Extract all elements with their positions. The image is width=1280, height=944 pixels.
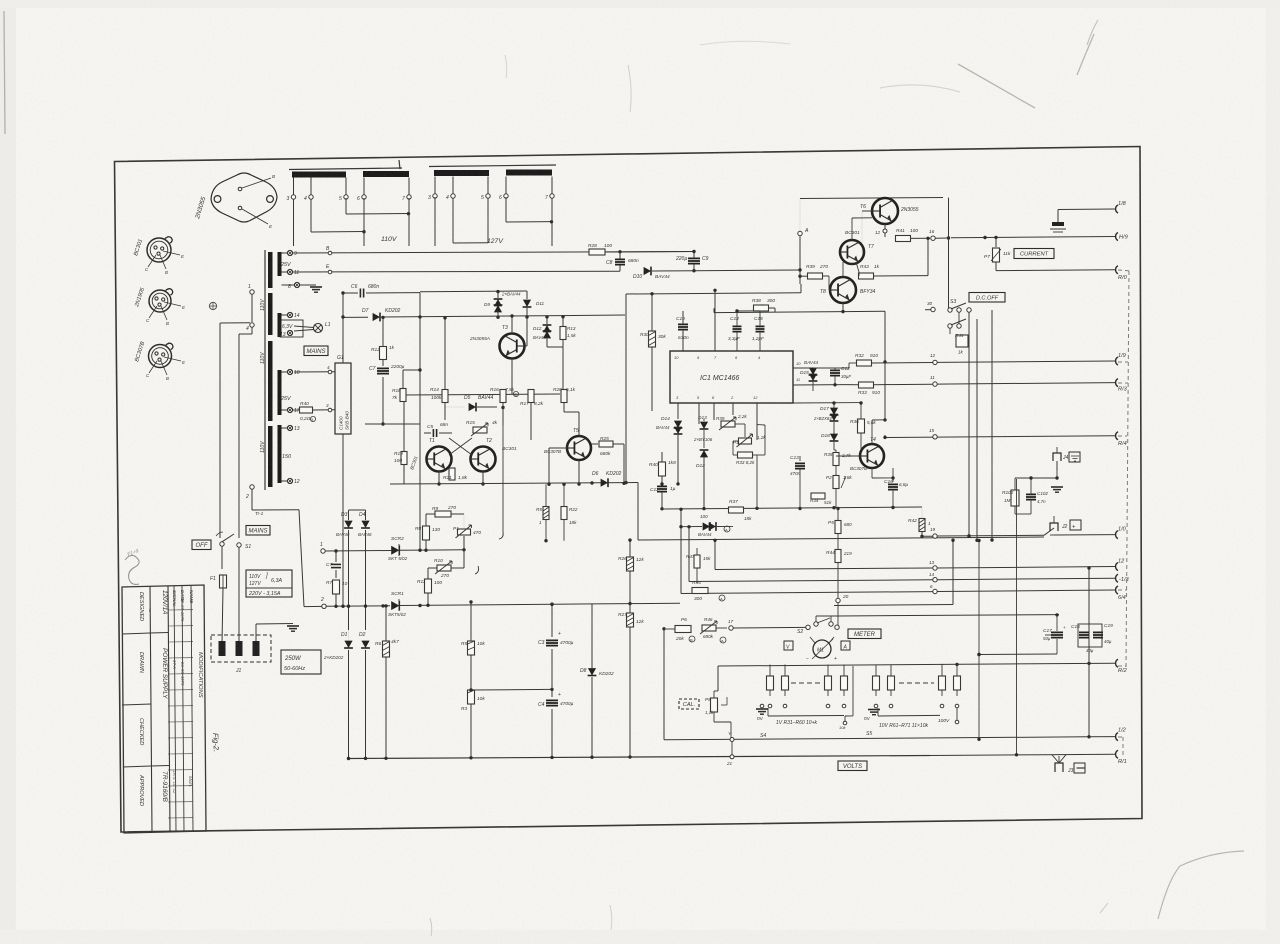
rail 593 <box>681 592 933 594</box>
resistor R44b 1k <box>956 335 968 347</box>
minus bus <box>930 754 1044 757</box>
resistor R33b 910 <box>859 382 874 388</box>
pinout 2N1905 <box>149 290 171 312</box>
resistor P5 680 <box>835 521 841 534</box>
wire d17 top <box>801 402 861 404</box>
wire c14 c15 top <box>737 310 760 312</box>
conn 12t <box>1116 563 1118 571</box>
CURRENT label box <box>1014 249 1054 259</box>
wire t6 vert <box>884 197 886 199</box>
pinout BC301 <box>147 238 171 262</box>
pot R46 680k <box>702 625 716 631</box>
sec terminal 8 <box>282 284 295 286</box>
junction 595 <box>590 481 593 484</box>
ratings box <box>246 570 292 597</box>
node 1 circle <box>321 549 325 553</box>
current branch <box>983 236 986 239</box>
wire rail270 down <box>798 268 801 271</box>
resistor R40b 1k8 <box>659 462 666 476</box>
resistor R8 130 <box>423 526 430 540</box>
pot R10 270 <box>437 565 451 571</box>
node 15 <box>933 435 937 439</box>
wire down from primary 2 <box>299 510 304 607</box>
resistor R14 100k <box>442 390 448 403</box>
resistor R32 910 <box>857 360 872 366</box>
core bar p1 <box>268 252 273 288</box>
package hole right <box>267 196 274 203</box>
vert 715 <box>714 290 716 351</box>
node16 rail right <box>951 237 1115 238</box>
switch S3 row2 <box>948 324 952 328</box>
junction 630 540 <box>628 538 631 541</box>
cap C16 6.8u <box>888 483 898 485</box>
node 20 <box>836 598 840 602</box>
wire s3 down a <box>949 328 951 334</box>
resistor R12 <box>382 317 384 347</box>
title block row1 <box>122 633 150 634</box>
METER label box <box>848 629 881 639</box>
transistor T1 <box>427 447 452 472</box>
core tick top <box>399 160 400 169</box>
rail 654 <box>979 653 1057 656</box>
J2 connector <box>1050 523 1058 531</box>
resistor R27 12k <box>627 613 634 627</box>
wire tap g1 d <box>408 198 410 246</box>
wire scr2 right <box>554 603 592 605</box>
IC pin right 11 <box>793 384 845 386</box>
wire C7 bottom <box>365 423 420 425</box>
node 17b <box>729 626 733 630</box>
rail 271 <box>996 269 1115 272</box>
node Y <box>730 738 734 742</box>
vert 348 630 <box>348 606 350 630</box>
main rail y484 <box>390 483 600 484</box>
core bar p3 <box>268 341 273 421</box>
conn R/0 <box>1116 266 1118 274</box>
wire vert 420 <box>419 317 421 480</box>
wire ic12 down <box>756 440 758 455</box>
transistor T7 BC301 <box>840 240 864 264</box>
J4 gnd box <box>1069 452 1080 462</box>
resistor R17 8.2k <box>528 390 534 403</box>
wire 100V drop <box>956 722 958 737</box>
winding bar 4 <box>506 170 552 176</box>
wire meter drop <box>837 625 839 627</box>
cap C7b <box>331 563 341 565</box>
sec terminal 13 <box>282 427 288 429</box>
resistor R38 300 <box>754 305 769 311</box>
cross couple b <box>449 438 472 455</box>
wire tap g2 b <box>487 198 489 243</box>
conn R/2 <box>1116 659 1118 667</box>
primary terminal 6 right group <box>505 177 507 195</box>
wire t4 b2 <box>835 449 837 451</box>
ladder bottom wire 1 <box>768 715 844 718</box>
sec bar 2 <box>278 313 282 337</box>
cap C4 4700u <box>546 699 558 701</box>
primary terminal 5 right group <box>487 177 489 195</box>
sec terminal 10 <box>282 371 288 373</box>
resistor R20 5.1k <box>561 390 567 403</box>
wire riser 689 <box>688 527 690 582</box>
conn R/1 <box>1116 750 1118 758</box>
rail 581 <box>689 580 933 582</box>
pot P8 1.1k <box>711 698 718 712</box>
node 16 <box>931 236 935 240</box>
wire d3d4 top <box>349 509 366 511</box>
primary terminal 1 <box>250 290 254 294</box>
cap C17 50u <box>1051 631 1063 633</box>
vert 652 <box>651 294 653 411</box>
diode D11 <box>523 300 531 307</box>
wire mains feed2 <box>251 327 253 334</box>
sec wire top right b <box>293 270 621 273</box>
wire riser 681 <box>680 509 682 593</box>
package pin E <box>238 206 242 210</box>
plug prong 1 <box>219 641 226 656</box>
diode D12 pair <box>700 450 708 457</box>
sec terminal 11 <box>282 271 288 273</box>
transistor T6 2N3055 <box>872 198 898 224</box>
junction 969 <box>967 534 970 537</box>
wire s3 vert b <box>976 319 978 541</box>
wire t8 col <box>842 262 844 277</box>
wire caps rail <box>1017 634 1051 636</box>
primary terminal 3 right group <box>434 177 436 195</box>
wire C6 down <box>419 293 421 317</box>
diode D17 pair <box>830 408 838 415</box>
primary terminal 4 left group <box>310 178 312 196</box>
lamp L1 <box>314 324 323 333</box>
wire 681 joints <box>679 525 682 528</box>
ladder terminals 3 <box>874 704 878 708</box>
resistor R41 100 <box>896 236 911 242</box>
pot P2 1.8k <box>833 476 839 489</box>
resistor R34 51k <box>811 493 825 499</box>
wire t7 col <box>851 218 853 240</box>
pinout BC307B <box>149 345 172 368</box>
diode D13 <box>700 422 708 429</box>
wire t4e link <box>872 477 893 479</box>
plug prong 2 <box>236 641 243 656</box>
wire sec10 to G1 <box>294 371 335 373</box>
core bar p2 <box>268 293 273 335</box>
top rail t6 <box>800 198 943 199</box>
junction 606 <box>334 605 337 608</box>
wire t6 emitter <box>884 224 886 237</box>
transistor T5 BC307B <box>567 436 591 460</box>
node 11r <box>933 382 937 386</box>
conn H/9 <box>1116 233 1118 241</box>
circled plus mark <box>209 302 216 309</box>
wire p8 tap <box>721 704 727 706</box>
cap C15 <box>756 325 765 327</box>
wire 348 bottom <box>348 756 350 760</box>
wire r38 fork <box>713 308 715 312</box>
resistor R18 7k <box>400 389 406 402</box>
wire tap g2 a <box>452 198 454 243</box>
ladder pair 3 <box>875 665 877 677</box>
switch S1 <box>220 542 224 546</box>
sec terminal 9 <box>282 252 288 254</box>
ladder bottom wire 2 <box>878 714 940 717</box>
ladder pair 1 <box>769 665 771 677</box>
resistor R11 100 <box>425 579 432 593</box>
node 10k tap <box>843 721 847 725</box>
title block row2 <box>122 704 151 705</box>
wire bus980 1017 <box>1016 479 1018 755</box>
ladder terminals 1 <box>760 704 764 708</box>
diode D3 <box>344 521 352 528</box>
wire rail484 corner <box>637 483 639 541</box>
border frame <box>115 147 1143 833</box>
pot R39 <box>721 421 735 427</box>
wire p1 left <box>733 440 738 442</box>
wire r18 <box>402 370 404 388</box>
wire rail270 right <box>694 269 800 272</box>
MAINS label box lower <box>246 526 270 536</box>
rail 605 <box>834 605 953 606</box>
rail 616 ext <box>1059 613 1089 615</box>
ladder dashes 2 <box>899 682 934 684</box>
dashed stub c <box>1118 382 1128 384</box>
core line <box>264 250 266 490</box>
sec wire top right a <box>293 252 695 254</box>
J3 connector <box>1055 763 1063 772</box>
rail y395 top <box>402 394 560 395</box>
cap C18 40u <box>1079 631 1089 633</box>
wire t8 vert cont <box>884 362 886 420</box>
resistor R13 1.5k <box>562 317 564 326</box>
rail 739 conn <box>1089 736 1115 738</box>
plus bus <box>1054 534 1115 536</box>
OFF label box <box>192 540 211 550</box>
ladder sel wire 1 <box>761 710 763 716</box>
ladder top bus <box>718 663 1115 666</box>
primary top line right group <box>429 165 556 167</box>
wire t6 top <box>884 197 886 199</box>
cap C3 4700u <box>551 604 553 637</box>
ladder top bus drop <box>717 666 719 691</box>
rail 569 <box>715 568 933 570</box>
resistor R43 1k <box>859 273 874 279</box>
sec terminal 12 <box>282 480 288 482</box>
ladder S4S5 bus <box>664 737 1089 740</box>
conn 1/8 <box>1116 205 1118 213</box>
wire S1b down <box>238 547 240 644</box>
pot R15 <box>473 427 487 433</box>
title block col2 row2 <box>151 765 169 768</box>
wire r16 bot <box>502 403 504 425</box>
winding bar 1 <box>292 172 346 178</box>
primary terminal 4 right group <box>452 177 454 195</box>
primary terminal 5 left group <box>345 178 347 196</box>
box 250W <box>281 650 321 674</box>
conn R/4 <box>1116 432 1118 440</box>
rail 478 <box>1015 477 1057 479</box>
dashed edge vert <box>1126 271 1129 668</box>
diode D14 BAV44 <box>674 421 682 428</box>
wire t4 coll <box>871 420 873 444</box>
wire rc bottom <box>1015 513 1031 515</box>
dashed stub b <box>1118 361 1128 363</box>
IC1 MC1466 box <box>670 351 793 403</box>
pot P1 470 <box>458 529 471 535</box>
wire G1 down <box>342 434 344 606</box>
title block outer <box>122 585 206 833</box>
title block col3 c <box>191 586 193 832</box>
wire 922 down <box>921 507 923 518</box>
plug J1 dashed box <box>211 635 271 662</box>
SCR1 SKT5/02 <box>391 546 399 555</box>
wire s3 a <box>958 312 960 324</box>
package pin B <box>238 187 242 191</box>
wire t4 node15 <box>884 435 886 438</box>
diode D19 at A <box>703 522 710 530</box>
ratings line <box>246 587 292 589</box>
node A <box>799 236 801 270</box>
package hole left <box>214 196 221 203</box>
CAL label box <box>679 699 699 709</box>
diode D6 KD202 <box>601 479 608 487</box>
wire 979 vert <box>978 541 980 740</box>
wire scr1 gate <box>440 549 464 551</box>
wire tap g1 b <box>363 198 365 246</box>
winding bar 3 <box>434 170 489 176</box>
sec bar 4 <box>278 425 282 483</box>
wire rail317 to A <box>560 314 625 317</box>
wire t4 base link <box>835 452 837 456</box>
sec terminal 17 <box>282 409 288 411</box>
gate curl <box>475 566 479 574</box>
primary terminal 3 left group <box>293 178 295 196</box>
diode D18 <box>830 434 838 441</box>
wire s3 vert c <box>991 310 993 540</box>
cap C14 <box>733 325 742 327</box>
resistor R44 219 <box>835 550 841 563</box>
ladder pair 4 <box>941 665 943 677</box>
cap C5 <box>432 429 434 437</box>
SCR2 SKT5/02b <box>391 601 399 610</box>
pot P7 11k <box>993 248 1000 262</box>
wire ic outer right <box>800 284 802 293</box>
wire ic top left <box>626 293 801 294</box>
resistor R9 270 <box>435 511 451 517</box>
title block line col2 <box>168 586 170 832</box>
upper rail to D9/D11 <box>420 290 527 293</box>
wire t4 emitter <box>871 468 873 478</box>
wire J2 riser <box>1044 528 1054 535</box>
sec bar 1 <box>278 252 282 276</box>
wire t2 bottom <box>482 471 484 484</box>
resistor R47 15k <box>694 555 700 568</box>
wire tap g2 c <box>505 197 507 222</box>
primary terminal 4 <box>250 323 254 327</box>
wire p1 to scr <box>463 550 465 556</box>
conn 1/9 <box>1116 357 1118 365</box>
resistor R25 680k <box>591 443 598 445</box>
dashed stub d <box>1118 435 1127 437</box>
winding bar 2 <box>363 171 409 177</box>
cap C10 630n <box>678 323 688 325</box>
primary terminal 7 right group <box>551 177 553 195</box>
resistor R35 2.7k <box>833 453 839 466</box>
wire corner 951 <box>948 198 950 310</box>
rail 312 <box>714 312 843 313</box>
cross couple a <box>449 438 472 455</box>
node 2 circle <box>304 605 322 607</box>
wire G1 up <box>342 293 344 363</box>
wire s3 vert main <box>968 348 970 537</box>
pot P6 20k <box>675 626 691 633</box>
wire r5r3 tap <box>471 688 552 691</box>
cap C11 1u <box>657 485 667 487</box>
conn 6/4 <box>1116 586 1118 594</box>
wire rail602 right <box>592 603 630 605</box>
conn R/3 <box>1116 379 1118 387</box>
primary bottom terminal 2 <box>250 485 254 489</box>
resistor R26 12k <box>627 557 634 571</box>
diode D15 BAV44 <box>809 368 817 375</box>
A box <box>841 641 850 650</box>
wire riser 715 <box>714 540 716 569</box>
meter M1 <box>813 640 831 658</box>
conn -1/3 <box>1116 574 1118 582</box>
rectifier G1 box <box>335 363 351 434</box>
resistor R28 100 <box>589 249 605 255</box>
title block row3 <box>123 766 151 767</box>
wire 1089 drop <box>1088 568 1090 737</box>
resistor R30 30k <box>649 331 656 347</box>
IC pin right 10 <box>793 367 813 369</box>
junction dots right <box>975 539 978 542</box>
VOLTS label box <box>838 761 867 771</box>
MAINS label box <box>304 346 328 356</box>
title block line col1 <box>150 586 152 832</box>
diode D1 <box>344 641 352 648</box>
dashed stub g <box>1118 736 1123 738</box>
resistor R45 300 <box>692 588 708 594</box>
sec bar 3 <box>278 370 282 415</box>
wire t8 emitter <box>842 303 844 312</box>
resistor R21 1.8k <box>449 468 455 480</box>
wire s2 top <box>815 616 817 622</box>
node 21 <box>730 755 734 759</box>
lamp box <box>280 320 303 337</box>
wire t6 base <box>862 210 872 212</box>
node 30 <box>931 307 935 311</box>
sec terminal 14 <box>282 314 288 316</box>
wire R40 to G1 <box>313 409 335 411</box>
caps wiring <box>1045 634 1051 636</box>
J4 connector <box>1056 461 1058 470</box>
diode D7 KD202 <box>343 316 368 318</box>
resistor R102 1M <box>1011 490 1019 506</box>
ladder pair 2 <box>827 665 829 677</box>
core bar p4 <box>268 426 273 487</box>
wire j3 vee <box>1052 755 1059 763</box>
resistor R36 5.6k <box>858 419 865 433</box>
wire t1 bottom <box>438 471 440 484</box>
wire c17 stub <box>1056 616 1058 631</box>
title block col3 b <box>182 586 184 832</box>
cap C102 4.7n <box>1026 493 1036 495</box>
resistor R33c <box>738 452 753 458</box>
resistor R40 0.2 <box>293 409 299 411</box>
bottom bus joints <box>347 757 350 760</box>
bottom bus main <box>350 756 930 759</box>
wire p6 left <box>663 628 665 630</box>
